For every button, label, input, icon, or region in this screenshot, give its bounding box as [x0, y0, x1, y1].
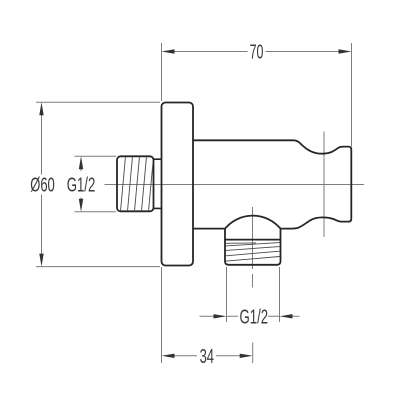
dim 70 text	[250, 40, 264, 63]
dim G12 left arrow up	[79, 156, 83, 169]
body tube bottom edge	[193, 228, 225, 230]
dim D60 arrow top	[39, 102, 43, 115]
dim G12 bottom extension left	[226, 267, 228, 322]
dim D60 extension top	[36, 101, 160, 103]
dim G12 left extension bottom	[75, 211, 117, 213]
dim 70 line	[174, 51, 339, 53]
dim 70 arrow left	[162, 49, 175, 54]
outlet nut	[225, 240, 281, 265]
inlet fitting neck	[154, 159, 162, 208]
dim D60 extension bottom	[36, 266, 160, 268]
dim D60 text	[30, 174, 55, 197]
dim G12 left arrow down	[79, 199, 83, 212]
dim 70 extension right	[351, 43, 353, 147]
centerline outlet vertical	[252, 207, 254, 288]
dim G12 bottom arrow right	[280, 314, 293, 318]
dim 70 extension left	[161, 43, 163, 101]
dim G12 bottom extension right	[279, 267, 281, 322]
svg-text:70: 70	[250, 40, 264, 63]
dim G12 bottom line stubs	[200, 315, 300, 317]
dim G12 left text	[67, 174, 96, 196]
dim D60 arrow bottom	[39, 254, 43, 267]
outlet bell sides	[225, 229, 281, 240]
dim 34 text	[200, 345, 214, 368]
dim G12 left extension top	[75, 155, 117, 157]
dim 34 extension right	[252, 343, 254, 364]
dim 34 arrow left	[162, 354, 175, 358]
svg-text:Ø60: Ø60	[30, 174, 55, 197]
svg-text:34: 34	[200, 345, 214, 368]
dim G12 bottom arrow left	[214, 314, 227, 318]
outlet bell dome	[225, 216, 281, 229]
dim G12 left line	[80, 169, 82, 199]
dim 34 arrow right	[240, 354, 253, 358]
wall flange plate	[162, 103, 194, 266]
svg-text:G1/2: G1/2	[67, 174, 96, 196]
dim 70 arrow right	[339, 49, 352, 54]
body tube and holder knob outline	[193, 140, 351, 228]
dim G12 bottom text	[239, 306, 268, 328]
outlet nut thread lines	[226, 243, 280, 262]
inlet fitting body G1/2	[117, 156, 154, 211]
centerline horizontal body axis	[105, 184, 365, 186]
svg-text:G1/2: G1/2	[239, 306, 268, 328]
dim 34 line	[175, 355, 240, 357]
dim D60 line	[41, 115, 43, 254]
dim 34 extension left	[161, 267, 163, 363]
centerline cradle vertical	[323, 132, 325, 238]
